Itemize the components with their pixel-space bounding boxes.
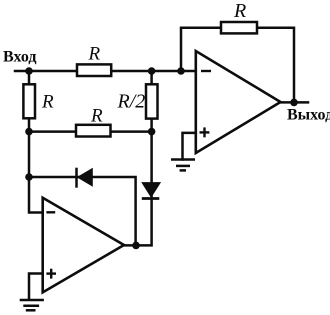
- svg-text:R: R: [88, 44, 101, 65]
- wire top rail to U1 inverting input: [29, 70, 196, 73]
- node input: [25, 67, 33, 75]
- op-amp U1: [196, 51, 281, 153]
- U2 minus sign: [46, 211, 55, 213]
- wire R/2 column: [150, 71, 153, 132]
- wire right diode column to U2 output: [124, 132, 152, 246]
- node diode row left: [25, 173, 33, 181]
- wire U1 noninverting input to ground: [183, 133, 196, 160]
- wire lower row: [29, 130, 152, 133]
- resistor R4 (R/2): [146, 84, 158, 118]
- wire left column down to U2 inverting input: [29, 71, 43, 213]
- diode D2 (vertical, pointing down): [142, 183, 160, 199]
- svg-text:Выход: Выход: [287, 107, 330, 124]
- node left mid: [25, 128, 33, 136]
- wire diode row and down to U2 output node: [29, 177, 136, 245]
- ground G2: [20, 300, 44, 310]
- diode D1 (horizontal, pointing left): [77, 168, 93, 188]
- resistor R1 (top horizontal R): [77, 64, 111, 76]
- U2 plus sign: [46, 269, 56, 279]
- U1 minus sign: [201, 70, 211, 72]
- node right mid: [148, 128, 156, 136]
- node U1 inverting junction: [177, 67, 185, 75]
- node output: [290, 99, 298, 107]
- svg-text:Вход: Вход: [3, 49, 36, 66]
- wire input lead: [15, 70, 29, 73]
- svg-text:R: R: [233, 0, 246, 22]
- node top of R/2: [148, 67, 156, 75]
- svg-text:R/2: R/2: [117, 91, 146, 113]
- ground G1: [171, 160, 195, 171]
- wire U2 noninverting input to ground: [29, 274, 43, 300]
- U1 plus sign: [200, 127, 210, 137]
- resistor R2 (left vertical R): [23, 84, 35, 118]
- svg-text:R: R: [41, 92, 54, 113]
- wire output lead: [281, 101, 309, 104]
- node U2 output: [132, 242, 140, 250]
- resistor R3 (lower horizontal R): [76, 125, 111, 137]
- resistor R5 (feedback R): [221, 22, 257, 33]
- op-amp U2: [43, 198, 124, 293]
- svg-text:R: R: [90, 106, 103, 127]
- wire feedback loop of U1: [181, 28, 294, 103]
